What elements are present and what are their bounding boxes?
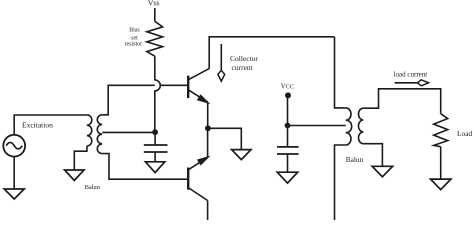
ground under load [431, 179, 451, 190]
voltage source V1 excitation [3, 135, 25, 157]
arrow load current [395, 82, 418, 84]
label R1 Bias set resistor [124, 27, 142, 47]
transistor Q1 upper NPN [187, 76, 189, 98]
wire source to ground [13, 157, 15, 189]
svg-text:Collector: Collector [230, 54, 258, 63]
transformer T1 input balun primary [87, 115, 92, 146]
capacitor C1 bias bypass [154, 132, 156, 145]
ground under C2 [277, 172, 297, 183]
label Collector current [230, 54, 258, 72]
wire top rail to output balun [335, 37, 346, 108]
svg-text:Vbb: Vbb [148, 0, 160, 7]
arrow collector current [220, 44, 222, 71]
capacitor C2 VCC bypass [287, 126, 289, 147]
wire Q1 collector to top rail [209, 37, 334, 69]
node VCC terminal dot [285, 92, 291, 98]
svg-text:VCC: VCC [281, 83, 294, 90]
wire source to input balun [14, 115, 87, 135]
ground under secondary [372, 166, 392, 177]
wire input balun center tap to bias node [102, 131, 155, 133]
wire secondary top to load [363, 89, 440, 114]
svg-text:Bias: Bias [129, 27, 140, 33]
label load current [394, 70, 428, 78]
wire upper base [102, 85, 187, 115]
svg-text:load current: load current [394, 70, 428, 78]
wire Q1 emitter to node [207, 102, 209, 128]
label Balun input [85, 184, 101, 191]
wire Q2 emitter to node [207, 128, 209, 157]
label Load [457, 129, 472, 138]
node VCC label [281, 83, 294, 90]
wire bias line with hop over base wire [155, 56, 161, 132]
ground right of emitter node [232, 150, 251, 160]
wire output balun bottom to rail [335, 145, 346, 220]
resistor R2 load [434, 114, 448, 147]
ground under input balun [65, 170, 84, 181]
svg-text:resistor: resistor [124, 41, 142, 47]
node VCC junction dot [285, 123, 291, 129]
svg-text:Excitation: Excitation [22, 121, 53, 130]
transformer T1 input balun secondary [97, 115, 102, 154]
wire Q2 collector down [207, 201, 209, 221]
wire lower base [102, 154, 187, 180]
ground under source [4, 189, 24, 199]
transformer T2 output balun secondary [358, 108, 363, 144]
transformer T2 output balun primary [346, 108, 352, 145]
resistor R1 bias [147, 21, 163, 56]
label Balun output [346, 155, 364, 164]
svg-text:Load: Load [457, 129, 472, 138]
wire VCC node to output balun center tap [288, 125, 346, 127]
wire primary to ground [74, 146, 87, 170]
wire VCC to node [287, 95, 289, 125]
wire emitter node to ground [208, 128, 241, 149]
svg-text:Balun: Balun [346, 155, 364, 164]
svg-text:current: current [232, 63, 254, 72]
wire load to ground [440, 147, 442, 179]
node Vbb label [148, 0, 160, 7]
svg-text:Balun: Balun [85, 184, 101, 191]
node emitter junction dot [205, 125, 211, 131]
node bias junction dot [152, 129, 158, 135]
ground under C1 [145, 162, 164, 173]
wire Vbb lead [154, 8, 156, 21]
transistor Q2 lower NPN [187, 168, 189, 190]
wire secondary bottom to ground [363, 144, 382, 167]
label Excitation [22, 121, 53, 130]
